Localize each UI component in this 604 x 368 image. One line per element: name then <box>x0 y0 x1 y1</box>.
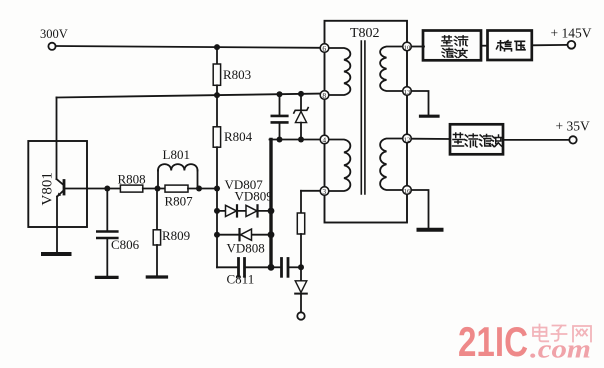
winding: secondary upper (pins 10-13) <box>380 47 403 92</box>
wire: C811 row <box>217 266 238 268</box>
wire: pin 12 to rectifier-filter box 2 <box>411 138 450 140</box>
wire: diode row 1 <box>217 210 271 212</box>
svg-text:VD808: VD808 <box>227 241 265 256</box>
diode VD808 (pointing left) <box>240 229 252 240</box>
diode (output pulse, unlabeled, pointing down) <box>295 281 307 313</box>
wire: collector drop from second bus into V801 <box>56 97 58 179</box>
resistor R804 <box>213 95 252 188</box>
svg-text:21IC: 21IC <box>458 318 528 365</box>
junction dot: top bus / R803 <box>214 44 220 50</box>
wire: diode row 2 <box>217 234 271 236</box>
junction dot: pin3 branch / coupling cap <box>298 264 304 270</box>
resistor R807 <box>165 185 194 208</box>
ground: R809 <box>147 275 166 278</box>
pin 16 <box>403 186 412 195</box>
wire: pin 10 to rectifier-filter box <box>411 46 424 48</box>
diode VD807 <box>226 205 238 216</box>
整 <box>442 36 453 46</box>
inductor L801 (parallel to R807) <box>158 147 198 189</box>
junction dot <box>268 208 275 215</box>
block: rectifier-filter 2 (整流滤波) <box>450 124 503 154</box>
pin 13 <box>403 87 412 96</box>
svg-text:L801: L801 <box>163 147 190 162</box>
capacitor C806 <box>97 189 139 276</box>
svg-text:300V: 300V <box>40 27 68 41</box>
wire: second bus (y=95) to transformer pin 8 <box>57 94 321 98</box>
node 300V input terminal <box>40 27 68 50</box>
winding: primary upper (pins 6-8) <box>329 48 351 95</box>
node +145V output terminal <box>568 41 576 49</box>
svg-text:6: 6 <box>322 44 326 53</box>
svg-text:V801: V801 <box>40 172 56 205</box>
滤 <box>442 48 453 57</box>
pin 3 <box>320 187 329 196</box>
svg-text:12: 12 <box>404 136 411 143</box>
流 <box>454 36 467 46</box>
junction dot: column/diode row 2 <box>214 232 220 238</box>
wire: box1 to box2 <box>481 45 488 47</box>
整 <box>453 133 464 146</box>
svg-text:13: 13 <box>404 89 411 96</box>
transformer T802 body <box>325 21 408 223</box>
svg-text:R808: R808 <box>118 172 146 187</box>
wire: 300V top bus to transformer pin 6 <box>56 46 321 48</box>
svg-text:R807: R807 <box>165 194 194 209</box>
ground: pin 16 <box>419 228 442 232</box>
zener diode (snubber, unlabeled) <box>294 94 308 140</box>
svg-text:C811: C811 <box>227 272 255 287</box>
resistor R809 <box>153 189 190 276</box>
svg-text:C806: C806 <box>111 237 140 252</box>
svg-text:3: 3 <box>322 187 326 196</box>
wire: pin 13 stub to ground <box>411 91 428 115</box>
稳 <box>497 41 512 51</box>
wire: pin 16 stub to ground <box>411 190 428 228</box>
网 <box>573 326 591 342</box>
波 <box>491 135 503 147</box>
capacitor (snubber, unlabeled) <box>272 94 288 139</box>
svg-text:VD809: VD809 <box>235 189 273 204</box>
ground: V801 emitter <box>43 252 70 256</box>
ground: pin 13 <box>421 115 439 118</box>
svg-text:8: 8 <box>322 91 326 100</box>
junction dot: second bus / R803-R804 column <box>214 92 220 98</box>
resistor R808 <box>118 172 146 193</box>
capacitor C811 <box>227 259 272 287</box>
wire: pin 3 branch <box>301 191 320 213</box>
wire: thick drain column x=269.5 <box>269 140 272 268</box>
svg-text:+ 35V: + 35V <box>556 119 590 134</box>
junction dot: second bus / snubber capacitor <box>277 91 283 97</box>
diode VD809 <box>246 205 258 216</box>
junction dot <box>298 137 304 143</box>
wire: box3 to +35V terminal <box>503 139 569 141</box>
波 <box>454 49 467 58</box>
junction dot: base wire / C806 <box>104 186 110 192</box>
junction dot <box>268 231 275 238</box>
wire: base lead of V801 to node A <box>65 188 120 190</box>
winding: primary lower (pins 4-3) <box>329 140 351 192</box>
svg-text:T802: T802 <box>350 26 380 41</box>
block: rectifier-filter 1 (整流滤波) <box>423 31 481 61</box>
wire: between R808 and R807 <box>143 188 165 190</box>
pin 10 <box>403 42 412 51</box>
滤 <box>479 135 491 147</box>
wire: vertical column x=217 down to C811 row <box>216 189 218 268</box>
junction dot: base wire / R804 column <box>214 186 220 192</box>
watermark 21IC.com 电子网 <box>458 318 591 365</box>
junction dot <box>277 137 283 143</box>
pin 4 <box>320 135 329 144</box>
svg-text:R804: R804 <box>224 129 253 144</box>
电 <box>533 325 548 342</box>
wire: box2 to +145V terminal <box>532 44 568 46</box>
junction dot: R808/R807/L801/R809 node <box>155 186 161 192</box>
pin 12 <box>403 134 412 143</box>
压 <box>515 41 525 50</box>
capacitor (coupling to pin 3 branch, unlabeled) <box>271 259 301 277</box>
pin 8 <box>320 91 329 100</box>
wire: R807 to R804 column <box>188 188 217 190</box>
svg-text:R809: R809 <box>162 228 190 243</box>
pin 6 <box>320 44 329 53</box>
node +35V output terminal <box>569 136 576 143</box>
resistor R803 <box>213 47 251 95</box>
svg-text:R803: R803 <box>223 67 251 82</box>
transistor V801 (in box) <box>28 141 87 253</box>
子 <box>552 326 567 341</box>
junction dot: second bus / zener diode <box>298 91 304 97</box>
流 <box>464 134 477 147</box>
junction dot <box>268 264 275 271</box>
svg-text:4: 4 <box>322 136 326 145</box>
block: regulator (稳压) <box>488 31 532 61</box>
svg-text:16: 16 <box>404 188 411 195</box>
node: open terminal below diode <box>297 312 304 319</box>
junction dot: L801 right / R807 right <box>196 186 202 192</box>
ground: C806 <box>96 276 117 279</box>
junction dot: column/diode row 1 <box>214 208 220 214</box>
resistor (pin 3 branch, unlabeled) <box>297 213 304 281</box>
winding: secondary lower (pins 12-16) <box>380 139 403 191</box>
svg-text:10: 10 <box>404 44 411 51</box>
svg-text:+ 145V: + 145V <box>551 26 592 41</box>
wire: y=139.5 bus from thick column to pin 4 <box>270 139 321 141</box>
